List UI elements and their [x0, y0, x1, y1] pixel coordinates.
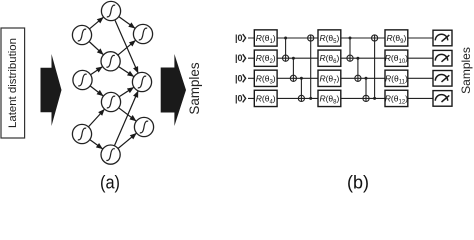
- svg-text:|0: |0: [235, 33, 243, 43]
- svg-text:(b): (b): [347, 172, 369, 192]
- svg-text:|0: |0: [235, 53, 243, 63]
- svg-text:|0: |0: [235, 93, 243, 103]
- svg-text:(a): (a): [100, 172, 120, 192]
- svg-text:Samples: Samples: [459, 47, 473, 94]
- svg-text:Latent distribution: Latent distribution: [7, 38, 19, 128]
- svg-text:Samples: Samples: [187, 62, 202, 114]
- svg-text:|0: |0: [235, 73, 243, 83]
